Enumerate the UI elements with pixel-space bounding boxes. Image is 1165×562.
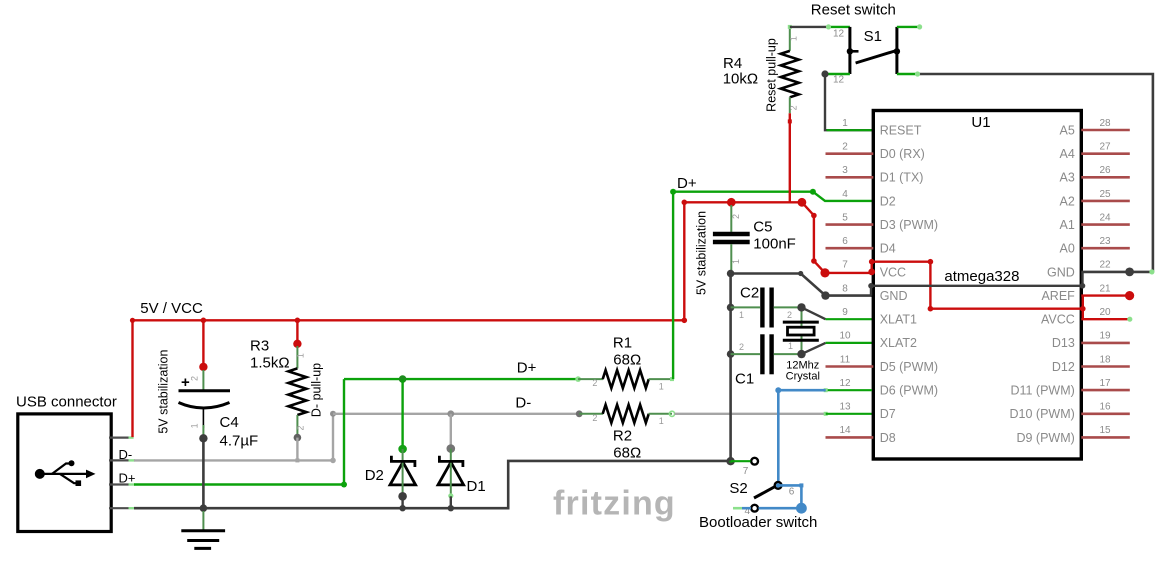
svg-text:D4: D4 [880, 242, 896, 256]
wire AVCC pin20 [1081, 317, 1132, 322]
svg-text:Bootloader switch: Bootloader switch [699, 514, 817, 531]
svg-text:5V stabilization: 5V stabilization [157, 350, 171, 434]
USB pin legs [109, 438, 141, 509]
wire D6 to S2 (blue) [775, 387, 825, 483]
svg-text:R3: R3 [250, 338, 269, 355]
svg-text:18: 18 [1099, 354, 1111, 365]
svg-text:14: 14 [839, 425, 851, 436]
wire S1 top right stub [897, 24, 922, 29]
wire S1 to GND (right side) [897, 71, 1153, 272]
svg-text:A2: A2 [1060, 194, 1075, 208]
svg-text:D0 (RX): D0 (RX) [880, 147, 925, 161]
capacitor C4 [179, 370, 231, 435]
capacitor C2 [731, 288, 802, 328]
wire leg D6 pin12 [824, 388, 872, 392]
U1 right pin labels [1010, 123, 1076, 444]
switch S1 [847, 27, 900, 74]
svg-text:2: 2 [787, 310, 792, 320]
resistor R4 [781, 25, 799, 113]
wire D- to D7 [675, 412, 828, 416]
junction VCC pin7 [820, 268, 829, 277]
U1 right pin numbers 28-15 [1099, 118, 1111, 436]
svg-text:2: 2 [190, 376, 200, 381]
svg-text:7: 7 [743, 466, 749, 477]
svg-text:10kΩ: 10kΩ [723, 71, 758, 88]
svg-text:1: 1 [739, 310, 744, 320]
svg-text:AREF: AREF [1041, 289, 1075, 303]
zener diode D1 [438, 444, 464, 508]
svg-text:24: 24 [1099, 212, 1111, 223]
svg-text:R2: R2 [613, 428, 632, 445]
svg-text:D13: D13 [1052, 336, 1075, 350]
svg-text:1: 1 [190, 423, 200, 428]
svg-text:2: 2 [739, 342, 744, 352]
svg-text:D6 (PWM): D6 (PWM) [880, 384, 938, 398]
svg-text:21: 21 [1099, 283, 1111, 294]
svg-text:A4: A4 [1060, 147, 1075, 161]
svg-text:2: 2 [296, 425, 306, 430]
svg-text:R1: R1 [613, 335, 632, 352]
svg-text:1.5kΩ: 1.5kΩ [250, 355, 290, 372]
junction GND riser / C5 [727, 270, 735, 278]
svg-text:2: 2 [731, 214, 741, 219]
svg-text:D+: D+ [119, 471, 136, 486]
svg-text:4: 4 [842, 189, 848, 200]
svg-text:2: 2 [592, 378, 597, 388]
U1 left pin numbers 1-14 [839, 118, 851, 436]
svg-text:5V / VCC: 5V / VCC [140, 300, 203, 317]
svg-text:D-: D- [515, 395, 531, 412]
U1 unconnected right pin stubs (pins 15-19,23-28) [1081, 130, 1130, 437]
wire D- main [333, 410, 583, 417]
svg-text:A0: A0 [1060, 242, 1075, 256]
svg-text:100nF: 100nF [753, 236, 796, 253]
U1 left pin labels [880, 123, 938, 444]
svg-text:Reset pull-up: Reset pull-up [764, 38, 778, 112]
svg-text:D1 (TX): D1 (TX) [880, 171, 924, 185]
junction GND / D2 [399, 505, 405, 511]
resistor R1 [578, 370, 674, 391]
junction D- / D1 [447, 410, 454, 417]
svg-text:15: 15 [1099, 425, 1111, 436]
svg-text:XLAT2: XLAT2 [880, 336, 917, 350]
svg-text:GND: GND [1047, 265, 1075, 279]
svg-text:C1: C1 [735, 371, 754, 388]
wire leg D7 pin13 [826, 413, 872, 415]
svg-text:1: 1 [842, 118, 848, 129]
svg-text:U1: U1 [971, 114, 990, 131]
svg-text:2: 2 [592, 413, 597, 423]
svg-text:USB connector: USB connector [16, 394, 117, 411]
svg-text:Crystal: Crystal [786, 371, 820, 383]
svg-text:D12: D12 [1052, 360, 1075, 374]
junction 5V rail / R3 [295, 318, 301, 324]
capacitor C5 [713, 205, 750, 271]
svg-text:RESET: RESET [880, 123, 922, 137]
bendpoint 5V rail [798, 198, 807, 207]
wire R4 to 5V rail [788, 113, 792, 202]
svg-text:2: 2 [842, 142, 848, 153]
wire XLAT1 pin9 [802, 307, 873, 319]
svg-text:26: 26 [1099, 165, 1111, 176]
resistor R2 [579, 405, 674, 426]
svg-text:S2: S2 [729, 480, 747, 497]
svg-text:10: 10 [839, 331, 851, 342]
wire C4 tap [199, 320, 207, 371]
svg-text:D2: D2 [880, 194, 896, 208]
resistor R3 [288, 346, 306, 435]
svg-text:16: 16 [1099, 402, 1111, 413]
wire D+ riser to D2 pin [670, 189, 872, 379]
U1 unconnected left pin stubs (pins 2,3,5,6,11,14) [826, 154, 874, 438]
svg-text:5: 5 [842, 212, 848, 223]
USB connector [18, 414, 111, 532]
wire GND internal (pin8 to pin22) [868, 272, 1085, 296]
svg-text:VCC: VCC [880, 265, 906, 279]
svg-text:7: 7 [842, 260, 848, 271]
wire VCC internal (pin7 to AVCC/AREF) [868, 259, 1085, 319]
wire S2 pin6 loop (blue) [759, 483, 807, 513]
svg-text:XLAT1: XLAT1 [880, 313, 917, 327]
junction 5V rail / C5 [727, 198, 736, 207]
svg-text:D- pull-up: D- pull-up [310, 363, 324, 417]
svg-text:1: 1 [788, 341, 793, 351]
svg-text:R4: R4 [723, 55, 742, 72]
svg-text:27: 27 [1099, 142, 1111, 153]
wire R3 to D- net [294, 434, 302, 463]
svg-text:D1: D1 [467, 478, 486, 495]
svg-text:6: 6 [842, 236, 848, 247]
svg-text:D+: D+ [517, 360, 537, 377]
svg-text:12: 12 [833, 75, 845, 86]
svg-text:D-: D- [119, 447, 133, 462]
junction GND / D1 [448, 505, 454, 511]
svg-text:GND: GND [880, 289, 908, 303]
IC U1 body [873, 111, 1081, 460]
svg-text:11: 11 [840, 354, 851, 365]
svg-text:D10 (PWM): D10 (PWM) [1010, 407, 1075, 421]
svg-text:25: 25 [1099, 189, 1111, 200]
svg-text:Reset switch: Reset switch [811, 2, 896, 19]
wire R3 tap [293, 320, 301, 348]
wire XLAT2 pin10 [802, 343, 873, 354]
switch S2 [751, 458, 781, 512]
capacitor C1 [731, 334, 802, 374]
svg-text:D9 (PWM): D9 (PWM) [1016, 431, 1074, 445]
label 12Mhz Crystal [786, 360, 820, 383]
svg-text:1: 1 [659, 382, 664, 392]
wire C4 to GND [199, 434, 207, 508]
svg-text:2: 2 [789, 105, 799, 110]
wire R4 to S1 [790, 24, 850, 29]
wire GND to pin8 [731, 271, 872, 300]
svg-text:D3 (PWM): D3 (PWM) [880, 218, 938, 232]
svg-text:8: 8 [842, 283, 848, 294]
wire D+ lower (USB to riser) [134, 379, 347, 487]
junction GND riser / C1 [727, 350, 735, 358]
svg-text:A5: A5 [1060, 123, 1075, 137]
svg-text:fritzing: fritzing [553, 485, 676, 523]
wire GND bus [134, 461, 730, 508]
svg-text:D5 (PWM): D5 (PWM) [880, 360, 938, 374]
wire D2 tap [401, 379, 403, 449]
svg-text:A3: A3 [1060, 171, 1075, 185]
wire D1 tap [450, 414, 452, 449]
svg-text:A1: A1 [1060, 218, 1075, 232]
svg-text:22: 22 [1099, 260, 1111, 271]
svg-text:28: 28 [1099, 118, 1111, 129]
wire S1 to RESET pin1 [821, 70, 872, 130]
svg-text:20: 20 [1099, 307, 1111, 318]
svg-text:68Ω: 68Ω [613, 352, 641, 369]
svg-text:atmega328: atmega328 [944, 268, 1019, 285]
wire GND to S2 pin7 [731, 460, 751, 462]
svg-text:1: 1 [731, 259, 741, 264]
svg-text:S1: S1 [864, 28, 882, 45]
junction GND riser / C2 [727, 304, 735, 312]
svg-text:1: 1 [789, 36, 799, 41]
junction GND bus / S2 pin7 [726, 457, 734, 465]
svg-text:23: 23 [1099, 236, 1111, 247]
wire AREF pin21 [1081, 291, 1134, 300]
svg-text:9: 9 [842, 307, 848, 318]
svg-text:12: 12 [833, 29, 845, 40]
svg-text:6: 6 [789, 487, 795, 498]
svg-text:AVCC: AVCC [1041, 313, 1075, 327]
svg-text:C4: C4 [220, 414, 239, 431]
wire GND riser [729, 274, 732, 462]
svg-text:D11 (PWM): D11 (PWM) [1010, 384, 1074, 398]
crystal Y1 12Mhz [783, 303, 819, 358]
svg-text:D7: D7 [880, 407, 896, 421]
wire D+ main [344, 376, 581, 382]
svg-text:1: 1 [296, 353, 306, 358]
svg-text:68Ω: 68Ω [613, 445, 641, 462]
svg-text:5V stabilization: 5V stabilization [694, 211, 708, 295]
svg-text:3: 3 [842, 165, 848, 176]
ground [181, 511, 225, 548]
svg-text:D+: D+ [677, 175, 697, 192]
svg-text:4.7µF: 4.7µF [220, 433, 259, 450]
svg-text:D8: D8 [880, 431, 896, 445]
wire D- lower (USB to riser) [134, 411, 336, 463]
junction 5V rail / C4 [201, 318, 207, 324]
wire GND pin22 [1081, 268, 1154, 277]
svg-text:19: 19 [1099, 331, 1111, 342]
svg-text:12: 12 [839, 378, 851, 389]
wire 5V/VCC rail [130, 200, 872, 438]
svg-text:C5: C5 [753, 219, 772, 236]
junction GND / C4 [200, 504, 208, 512]
svg-text:D2: D2 [365, 467, 384, 484]
svg-text:C2: C2 [740, 285, 759, 302]
svg-text:13: 13 [839, 402, 851, 413]
svg-text:1: 1 [659, 416, 664, 426]
zener diode D2 [390, 445, 416, 509]
junction D+ / D2 [399, 375, 407, 383]
wire S2 pin4 stub (blue) [733, 507, 751, 510]
svg-text:17: 17 [1099, 378, 1111, 389]
